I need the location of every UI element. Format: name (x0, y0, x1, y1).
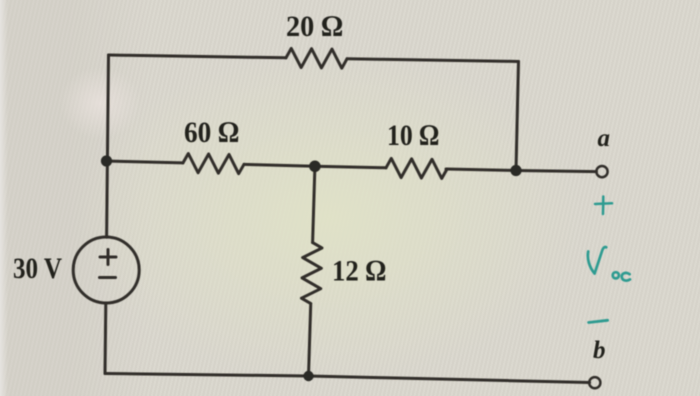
svg-text:10 Ω: 10 Ω (387, 119, 439, 152)
svg-text:30 V: 30 V (13, 252, 62, 285)
wire left vertical lower (source to bottom-left corner) (104, 303, 108, 373)
svg-text:60 Ω: 60 Ω (184, 116, 239, 149)
resistor R 10ohm zigzag (386, 158, 447, 178)
wire bottom right segment to terminal b (309, 376, 590, 383)
terminal b circle (589, 377, 600, 388)
wire middle right segment (10ohm to right node) (446, 169, 516, 171)
wire 12ohm branch upper (313, 166, 315, 242)
wire 12ohm branch lower (309, 305, 311, 376)
svg-text:20 Ω: 20 Ω (286, 10, 343, 43)
svg-text:b: b (593, 337, 606, 364)
wire middle centre segment (60ohm to middle node) (244, 164, 315, 166)
wire bottom left segment (105, 374, 309, 377)
annotation minus (teal) (589, 320, 608, 322)
annotation plus (teal) (595, 197, 612, 215)
resistor R 60ohm zigzag (183, 153, 244, 173)
resistor R 20ohm zigzag (286, 48, 347, 68)
wire right vertical (top-right corner down to middle node) (516, 62, 519, 171)
wire top horizontal left segment (109, 55, 287, 58)
V1 minus sign (100, 276, 116, 279)
wire top-left vertical (left branch upper) (107, 55, 109, 237)
node left (101, 155, 112, 166)
wire middle left segment (left node to 60ohm) (107, 161, 184, 163)
V1 plus sign (100, 256, 116, 259)
wire to terminal a (516, 171, 596, 172)
wire top horizontal right segment (347, 59, 519, 62)
node middle (309, 161, 321, 173)
node bottom (303, 371, 313, 381)
annotation Voc (teal) (588, 247, 630, 281)
voltage source V1 30V circle (73, 237, 139, 303)
resistor R 12ohm zigzag vertical (301, 242, 322, 304)
svg-text:12 Ω: 12 Ω (332, 255, 386, 288)
node right (510, 165, 521, 176)
svg-text:a: a (598, 125, 611, 152)
terminal a circle (596, 166, 607, 177)
wire middle segment (middle node to 10ohm) (315, 166, 386, 168)
